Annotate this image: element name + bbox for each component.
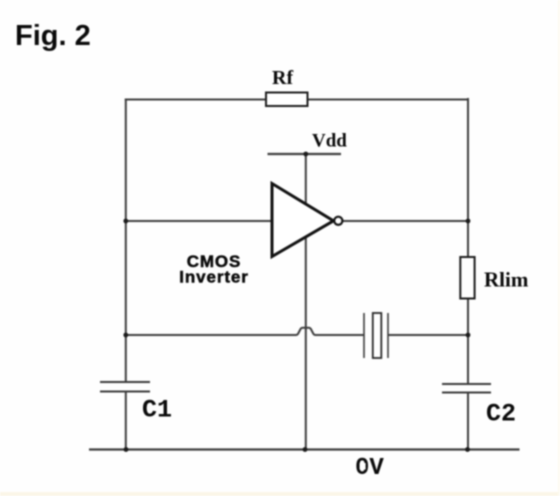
wire: inverter output wire (341, 220, 468, 222)
wire: top feedback wire (125, 99, 468, 101)
resistor Rlim (460, 257, 474, 299)
bottom cream strip (0, 492, 560, 496)
svg-text:Fig. 2: Fig. 2 (15, 20, 91, 52)
junction dot Vdd bar (303, 152, 308, 157)
svg-text:C1: C1 (142, 396, 172, 425)
capacitor C2 plates (442, 384, 491, 393)
resistor Rf (266, 93, 308, 107)
junction dot input node (123, 219, 128, 224)
svg-text:Rf: Rf (272, 67, 293, 89)
svg-text:C2: C2 (486, 400, 516, 429)
wire: left rail lower (C1 to 0V rail) (125, 392, 127, 451)
junction dot 0V right (465, 447, 470, 452)
wire: right rail upper (top wire to C2) (467, 98, 469, 384)
wire: inverter input wire (126, 220, 274, 222)
crystal X1 body (373, 313, 382, 358)
wire: crystal wire left with hop over power line (126, 328, 364, 335)
junction dot crystal left node (123, 333, 128, 338)
svg-text:Vdd: Vdd (312, 131, 347, 152)
wire: left rail upper (top wire to C1) (125, 99, 127, 383)
svg-text:0V: 0V (355, 455, 384, 482)
wire: 0V bottom rail (89, 448, 520, 450)
capacitor C1 plates (100, 382, 150, 392)
svg-text:Rlim: Rlim (484, 268, 529, 292)
wire: power line from Vdd to 0V (305, 154, 307, 450)
wire: crystal wire right (388, 334, 468, 336)
svg-text:Inverter: Inverter (179, 267, 249, 286)
junction dot 0V left (124, 447, 129, 452)
crystal X1 right plate (387, 313, 389, 358)
right cream strip (558, 0, 560, 496)
junction dot crystal right node (466, 333, 471, 338)
op-amp U1 inverter triangle (272, 184, 334, 257)
junction dot output node (466, 219, 471, 224)
inverter output bubble (334, 217, 342, 225)
wire: Vdd power bar (268, 153, 342, 155)
junction dot 0V center (303, 447, 308, 452)
wire: right rail lower (C2 to 0V rail) (467, 393, 469, 451)
crystal X1 left plate (363, 313, 365, 358)
